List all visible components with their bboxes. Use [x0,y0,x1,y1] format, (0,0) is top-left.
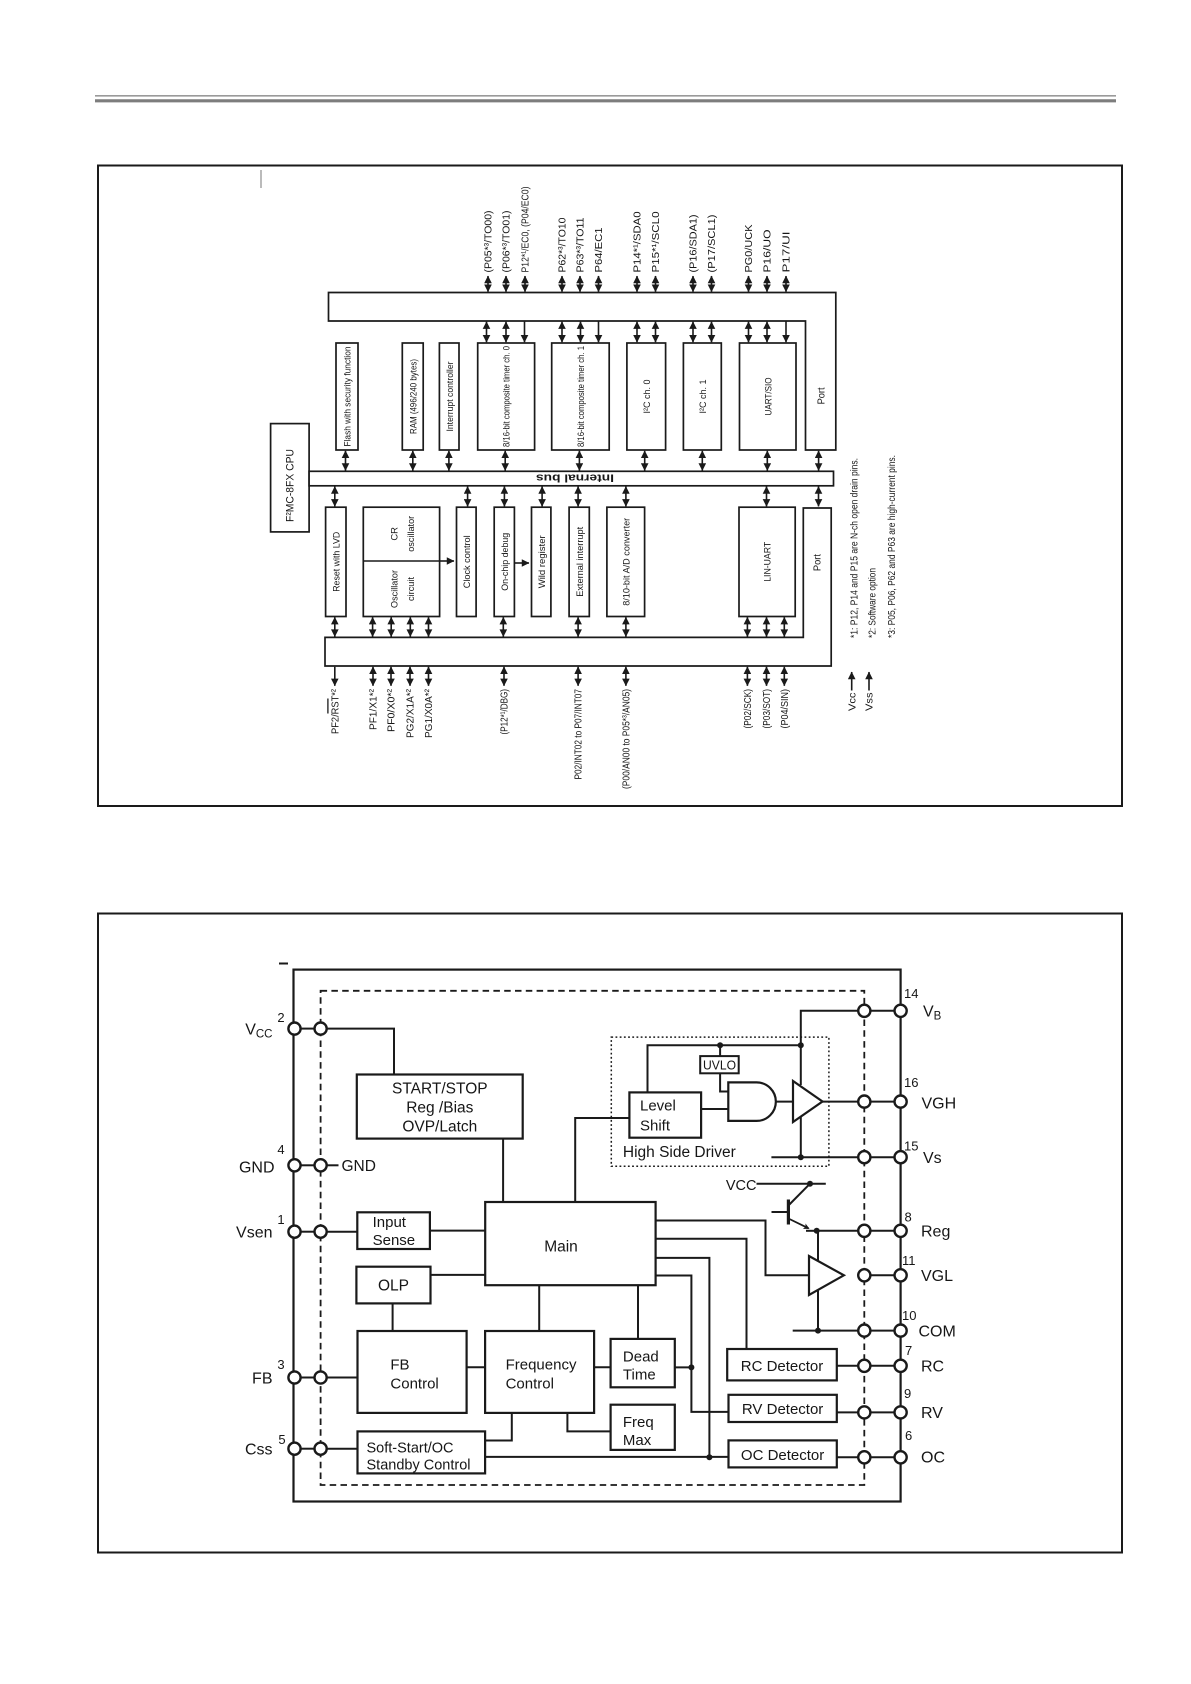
wire Main to RC Detector [656,1239,747,1349]
svg-text:On-chip debug: On-chip debug [500,533,511,591]
svg-text:16: 16 [904,1075,918,1090]
svg-text:P64/EC1: P64/EC1 [594,227,605,272]
pin RC label [905,1343,944,1376]
IC inner boundary (dashed) [321,991,865,1485]
block 8/16-bit composite timer ch. 0 [478,343,535,450]
svg-text:High Side Driver: High Side Driver [623,1144,736,1161]
svg-text:Internal bus: Internal bus [536,471,614,483]
junction dots [688,1042,821,1460]
svg-text:PG1/X0A*²: PG1/X0A*² [424,688,435,738]
svg-text:P02/INT02 to P07/INT07: P02/INT02 to P07/INT07 [574,689,585,780]
wires row2 blocks to lower port bar [335,617,785,636]
wire Main to Dead Time / RV Detector [656,1276,729,1412]
internal bus bar [309,471,833,486]
block F2MC-8FX CPU [271,424,310,532]
svg-text:Clock control: Clock control [462,535,473,588]
note 3 [887,455,898,638]
svg-text:RC Detector: RC Detector [741,1358,824,1375]
pin OC label [905,1428,945,1467]
svg-text:VGL: VGL [921,1268,953,1285]
pin Vs label [904,1139,942,1168]
svg-text:11: 11 [902,1253,916,1268]
block Flash with security function [336,343,358,450]
svg-text:*3: P05, P06, P62 and P63 are: *3: P05, P06, P62 and P63 are high-curre… [887,455,898,638]
svg-text:circuit: circuit [406,577,417,601]
svg-text:PG0/UCK: PG0/UCK [744,224,755,272]
wires port bar to peripheral blocks [487,321,787,342]
figure frame (top MCU diagram) [98,166,1122,807]
svg-text:Main: Main [544,1239,578,1256]
svg-text:Vcc: Vcc [847,693,858,712]
svg-text:8/16-bit composite timer ch. 1: 8/16-bit composite timer ch. 1 [576,346,587,447]
port bus bar bottom (L-shape) [325,508,831,666]
wires row1 blocks to internal bus [346,451,819,471]
block Wild register [532,507,551,616]
wire COM line [793,1330,859,1332]
svg-text:Css: Css [245,1442,273,1459]
wire Vs line [771,1156,858,1158]
wire Main to Dead Time top [637,1285,639,1339]
wires internal bus to row2 blocks [335,487,819,507]
wire Frequency Control to Soft-Start [485,1413,512,1441]
block Dead Time [611,1339,675,1387]
wires lower port bar to bottom pins [335,667,785,686]
wire oscillator to Clock control [440,560,454,562]
block RV Detector [729,1395,837,1422]
svg-text:PG2/X1A*²: PG2/X1A*² [406,688,417,738]
svg-text:7: 7 [905,1343,912,1358]
wire Frequency Control to Dead Time [594,1366,611,1368]
svg-text:RV Detector: RV Detector [742,1401,823,1418]
svg-text:P15*¹/SCL0: P15*¹/SCL0 [651,211,662,273]
svg-text:P62*³/TO10: P62*³/TO10 [558,217,569,272]
wire RC Detector to RC pin [837,1365,859,1367]
svg-text:Control: Control [506,1376,554,1393]
pin FB label [252,1357,285,1388]
right pin circles [858,1005,907,1464]
block On-chip debug [494,507,514,616]
svg-text:Vss: Vss [865,693,876,712]
wire Main to Level Shift [575,1118,629,1202]
svg-text:1: 1 [277,1212,284,1227]
block oscillator (CR oscillator / Oscillator circuit) [363,507,439,616]
svg-text:Level: Level [640,1098,676,1115]
High Side Driver region (dotted) [611,1037,829,1166]
pin Reg label [905,1210,951,1241]
svg-text:RV: RV [921,1405,943,1422]
header rule thick [95,99,1116,102]
pin Vcc supply arrow [847,672,858,711]
svg-text:VGH: VGH [922,1096,957,1113]
header rule thin [95,95,1116,97]
pin Css label [245,1432,286,1459]
svg-text:External interrupt: External interrupt [575,526,586,596]
svg-text:Interrupt controller: Interrupt controller [445,362,456,432]
transistor Q1 (VCC follower) [726,1178,826,1231]
svg-text:COM: COM [919,1324,956,1341]
svg-text:FB: FB [252,1371,272,1388]
wire Frequency Control to Freq Max [567,1413,610,1432]
svg-text:(P12*¹/DBG): (P12*¹/DBG) [500,689,511,735]
svg-text:(P16/SDA1): (P16/SDA1) [689,215,700,273]
left pin circles [288,1023,326,1455]
svg-text:P14*¹/SDA0: P14*¹/SDA0 [633,211,644,272]
svg-text:Input: Input [373,1214,407,1231]
block I2C ch. 0 [627,343,666,450]
svg-text:GND: GND [239,1160,275,1177]
svg-text:START/STOP: START/STOP [392,1081,488,1098]
svg-text:*1: P12, P14 and P15 are N-ch: *1: P12, P14 and P15 are N-ch open drain… [849,458,860,638]
block 8/16-bit composite timer ch. 1 [552,343,610,450]
svg-text:GND: GND [342,1158,376,1175]
wire FB Control to Frequency Control [467,1366,486,1368]
block 8/10-bit A/D converter [607,507,645,616]
block RAM [402,343,423,450]
block OC Detector [729,1440,837,1467]
svg-text:*2: Software option: *2: Software option [868,568,879,638]
svg-text:oscillator: oscillator [406,516,417,552]
wire VGL buffer to COM [817,1289,819,1331]
svg-text:Vsen: Vsen [236,1225,272,1242]
wires left pin links [300,1029,315,1449]
wire Reg to VGL buffer [817,1231,819,1261]
svg-text:VCC: VCC [726,1178,757,1194]
wire UVLO top tap [719,1045,721,1056]
wire Main to Frequency Control [538,1285,540,1331]
figure frame (bottom IC diagram) [98,914,1122,1553]
svg-text:Standby Control: Standby Control [367,1458,471,1474]
pin VB label [904,986,942,1023]
wire driver to Vs rail [800,1117,802,1157]
svg-text:I²C ch. 1: I²C ch. 1 [698,380,709,414]
pin Vss supply arrow [865,672,876,711]
wire Main to OC junction [656,1258,710,1457]
svg-text:Frequency: Frequency [506,1357,577,1374]
svg-text:F²MC-8FX CPU: F²MC-8FX CPU [285,449,297,522]
svg-text:4: 4 [277,1142,284,1157]
wire Reg line [817,1230,859,1232]
svg-text:5: 5 [278,1432,285,1447]
svg-text:UART/SIO: UART/SIO [763,378,774,416]
svg-text:(P06*³/TO01): (P06*³/TO01) [502,211,513,273]
port bus bar top (L-shape) [329,293,836,451]
svg-text:(P03/SOT): (P03/SOT) [762,689,773,729]
svg-text:2: 2 [277,1010,284,1025]
svg-text:PF1/X1*²: PF1/X1*² [369,688,380,730]
svg-text:(P05*³/TO00): (P05*³/TO00) [484,211,495,273]
wire buffer to VGH [823,1101,859,1103]
pin GND label [239,1142,285,1177]
svg-text:OC: OC [921,1450,945,1467]
svg-text:Flash with security function: Flash with security function [343,347,354,447]
svg-text:PF2/RST*²: PF2/RST*² [330,688,341,734]
svg-text:Port: Port [817,387,828,404]
block UART/SIO [740,343,797,450]
block UVLO [700,1056,739,1073]
labels top pin names [484,187,793,273]
block FB Control [358,1331,467,1413]
svg-text:P16/UO: P16/UO [763,229,774,272]
pin Vcc label [245,1010,284,1041]
pin COM label [902,1308,956,1341]
block Freq Max [611,1405,675,1450]
svg-text:UVLO: UVLO [703,1058,736,1072]
svg-text:CR: CR [389,527,400,541]
block Soft-Start/OC Standby Control [358,1431,486,1473]
block START/STOP Reg/Bias OVP/Latch [357,1075,523,1139]
block Input Sense [357,1212,430,1249]
svg-text:PF0/X0*²: PF0/X0*² [387,688,398,732]
svg-text:3: 3 [277,1357,284,1372]
svg-text:Dead: Dead [623,1349,659,1366]
svg-text:Freq: Freq [623,1414,654,1431]
svg-text:8/10-bit A/D converter: 8/10-bit A/D converter [621,518,632,606]
svg-text:Soft-Start/OC: Soft-Start/OC [367,1441,454,1457]
wire OC Detector to OC pin [837,1456,859,1458]
block Level Shift [629,1092,701,1137]
buffer U1 (VGH driver) [793,1081,823,1122]
svg-text:Reg /Bias: Reg /Bias [406,1100,473,1117]
svg-text:OC Detector: OC Detector [741,1447,824,1464]
svg-text:8/16-bit composite timer ch. 0: 8/16-bit composite timer ch. 0 [502,346,513,447]
block External interrupt [569,507,589,616]
pin VGL label [902,1253,953,1285]
wire START/STOP to Main [502,1139,504,1202]
wire Vcc to START/STOP [326,1029,394,1075]
svg-text:Time: Time [623,1367,656,1384]
note 1 [849,458,860,638]
note 2 [868,568,879,638]
block Reset with LVD [326,507,346,616]
svg-text:LIN-UART: LIN-UART [763,542,774,582]
svg-text:Control: Control [390,1376,438,1393]
wire Level Shift to AND gate [701,1108,728,1110]
svg-text:Reg: Reg [921,1224,950,1241]
svg-text:(P00/AN00 to P05*³/AN05): (P00/AN00 to P05*³/AN05) [622,689,633,789]
wires top pins to port bar [488,276,786,292]
svg-text:P17/UI: P17/UI [782,232,793,273]
svg-text:FB: FB [390,1357,409,1374]
wire On-chip debug to Wild register [514,562,529,564]
wire Main to VGL buffer input [656,1221,809,1276]
svg-text:RAM (496/240 bytes): RAM (496/240 bytes) [408,359,419,434]
pin VGH label [904,1075,956,1113]
svg-text:15: 15 [904,1139,918,1154]
svg-text:Port: Port [813,554,824,571]
svg-text:14: 14 [904,986,918,1001]
svg-text:(P02/SCK): (P02/SCK) [743,689,754,729]
pin RV label [904,1386,943,1422]
wire Dead Time to junction [675,1366,692,1368]
svg-text:8: 8 [905,1210,912,1225]
svg-text:(P04/SIN): (P04/SIN) [780,689,791,729]
wire Vsen to Input Sense [326,1231,357,1233]
wire VB to driver [801,1011,859,1085]
block Frequency Control [485,1331,594,1413]
block I2C ch. 1 [683,343,721,450]
svg-text:10: 10 [902,1308,916,1323]
svg-text:P63*³/TO11: P63*³/TO11 [576,217,587,272]
svg-text:9: 9 [904,1386,911,1401]
svg-text:Wild register: Wild register [537,535,548,588]
block Clock control [457,507,477,616]
buffer U2 (VGL driver) [809,1256,844,1295]
block RC Detector [727,1349,837,1380]
svg-text:Vs: Vs [923,1150,942,1167]
svg-text:Sense: Sense [373,1232,416,1249]
svg-text:Max: Max [623,1432,652,1449]
pin Vsen label [236,1212,285,1242]
wire RV Detector to RV pin [837,1411,859,1413]
overline on RST [327,699,329,714]
svg-text:Oscillator: Oscillator [389,570,400,608]
svg-text:Shift: Shift [640,1118,671,1135]
wire OLP to Main [431,1274,486,1276]
block Interrupt controller [439,343,459,450]
wire UVLO to AND gate [720,1073,728,1091]
svg-text:I²C ch. 0: I²C ch. 0 [642,380,653,414]
IC outline (solid) [294,970,901,1502]
wires right pin links [870,1011,895,1458]
AND gate [728,1082,776,1121]
block LIN-UART [739,507,795,616]
tick mark above Vcc [279,963,288,965]
wire AND gate to buffer [776,1101,793,1103]
block Main [485,1202,655,1285]
wire Soft-Start to OC Detector [485,1456,728,1458]
wire Css to Soft-Start [326,1448,358,1450]
svg-text:6: 6 [905,1428,912,1443]
svg-text:Reset with LVD: Reset with LVD [331,532,342,592]
wire OLP to FB Control [392,1303,394,1331]
wire FB to FB Control [326,1377,358,1379]
wire high-side supply rail [648,1045,801,1092]
wire Input Sense to Main [430,1230,485,1232]
labels bottom pin names [330,688,791,789]
svg-text:OVP/Latch: OVP/Latch [402,1119,477,1136]
block OLP [356,1267,430,1304]
svg-text:OLP: OLP [378,1278,409,1295]
svg-text:P12*¹/EC0, (P04/EC0): P12*¹/EC0, (P04/EC0) [521,187,532,273]
scan artifact tick [260,170,262,188]
svg-text:RC: RC [921,1359,944,1376]
wire GND stub [326,1158,376,1175]
svg-text:(P17/SCL1): (P17/SCL1) [707,215,718,273]
